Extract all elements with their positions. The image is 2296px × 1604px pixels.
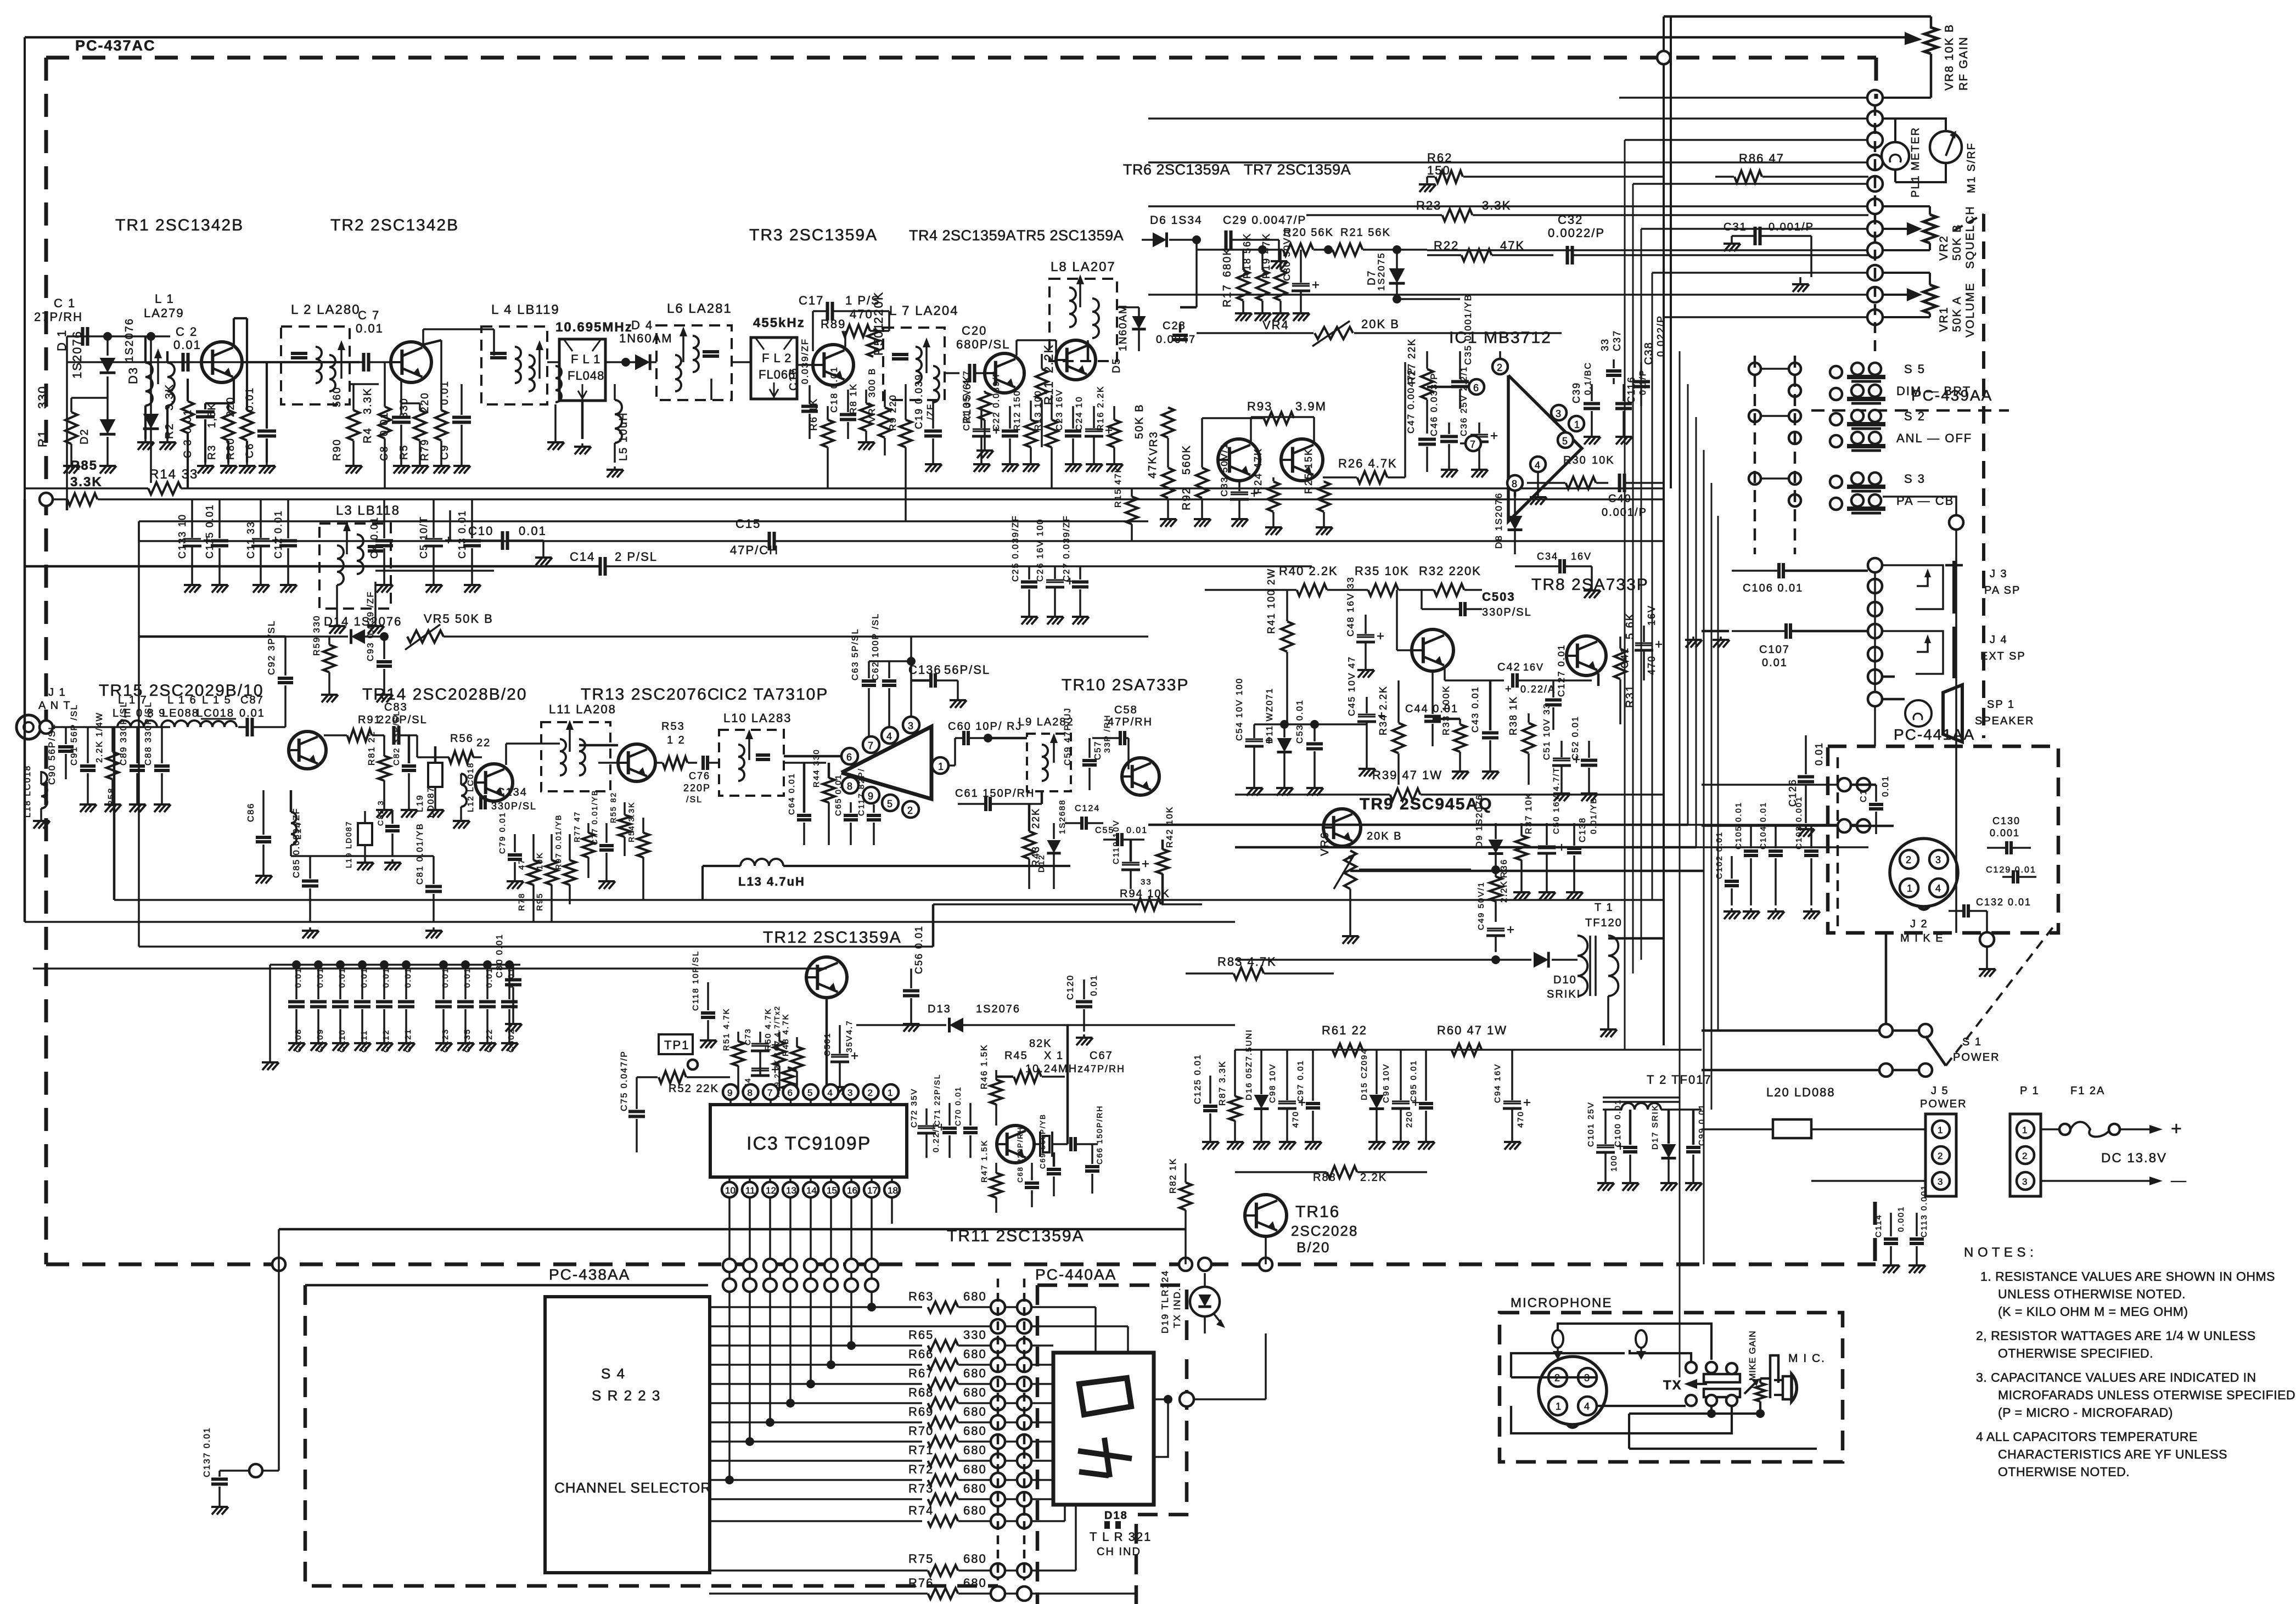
svg-text:2: 2: [907, 805, 913, 816]
pin 1 IC3: [883, 1084, 899, 1100]
svg-text:SPEAKER: SPEAKER: [1975, 715, 2034, 727]
pin circle row2 3: [784, 1279, 797, 1292]
pin circle ladder R 5: [1017, 1396, 1031, 1410]
svg-text:C132 0.01: C132 0.01: [1976, 897, 2031, 908]
svg-text:R70: R70: [908, 1424, 934, 1438]
wire main RF row TR1 stage: [67, 361, 321, 363]
svg-text:R21 56K: R21 56K: [1340, 227, 1391, 239]
capacitor C102 0.01: [1725, 880, 1739, 883]
svg-text:50K B: 50K B: [1133, 404, 1146, 439]
resistor R83 4.7K: [1234, 967, 1264, 980]
svg-text:L5 10uH: L5 10uH: [617, 412, 630, 461]
ground C48: [1365, 667, 1367, 670]
svg-text:27P/RH: 27P/RH: [34, 310, 83, 324]
pin circle row2 5: [824, 1279, 838, 1292]
svg-text:D5: D5: [1111, 358, 1122, 373]
ground C39: [1591, 434, 1593, 437]
ground C22: [1009, 461, 1011, 464]
tuning arrow L7: [925, 343, 928, 373]
svg-text:/SL: /SL: [686, 795, 703, 804]
wire ladder row 3: [710, 1364, 922, 1366]
svg-text:R26 4.7K: R26 4.7K: [1338, 457, 1397, 470]
svg-text:R88: R88: [1313, 1172, 1337, 1184]
svg-text:C98 10V: C98 10V: [1268, 1063, 1277, 1103]
svg-text:3.3K: 3.3K: [70, 475, 103, 489]
svg-text:(K = KILO OHM M = MEG OHM: (K = KILO OHM M = MEG OHM): [1998, 1304, 2188, 1319]
resistor R48 4.7K: [791, 1047, 803, 1072]
svg-text:C43 0.01: C43 0.01: [1470, 686, 1480, 733]
ground D16: [1260, 1139, 1262, 1142]
pin 16 IC3: [844, 1182, 859, 1197]
svg-text:C22 0.039/P: C22 0.039/P: [992, 370, 1001, 431]
potentiometer VR7 300 B: [879, 408, 891, 438]
svg-text:14: 14: [806, 1185, 817, 1196]
transistor TR6: [1218, 439, 1260, 481]
ground C97: [1312, 1139, 1314, 1142]
svg-text:C6: C6: [244, 443, 256, 458]
ground C123: [442, 1040, 445, 1043]
resistor R69 680: [928, 1417, 958, 1428]
capacitor C54 100 10V: [1245, 739, 1263, 740]
svg-text:6: 6: [1473, 382, 1479, 393]
wire column2 vertical: [1874, 572, 1876, 693]
tuning arrow L11: [569, 725, 571, 752]
board outline PC-437AC dashed border: [46, 56, 1876, 60]
transistor TR1: [201, 342, 242, 382]
svg-text:F L 2: F L 2: [762, 351, 791, 365]
pin 1 IC2: [932, 757, 948, 774]
svg-text:C28: C28: [1163, 320, 1186, 332]
diode D5 1N60AM: [1117, 306, 1139, 308]
svg-text:R39 47 1W: R39 47 1W: [1372, 768, 1442, 782]
capacitor C39 0.1/BC: [1584, 402, 1600, 405]
svg-text:R12 150: R12 150: [1013, 390, 1022, 431]
pin circle C137: [249, 1464, 262, 1477]
svg-text:4: 4: [1535, 460, 1540, 471]
svg-text:C85 0.039 /ZF: C85 0.039 /ZF: [292, 808, 301, 878]
capacitor C120 0.01: [1076, 1000, 1092, 1003]
ground C135: [464, 1040, 467, 1043]
wire mic wiring: [1558, 1324, 1711, 1360]
svg-text:VR4: VR4: [1262, 318, 1289, 332]
ground C91: [87, 801, 89, 804]
resistor R1 330: [65, 412, 77, 444]
wire IC3 pin18 drop: [891, 1197, 893, 1224]
ground R5: [419, 463, 421, 466]
svg-text:0.01: 0.01: [182, 409, 194, 434]
ground R59: [328, 691, 330, 695]
tuning arrow L9: [1053, 739, 1055, 763]
svg-text:C116: C116: [1626, 376, 1637, 403]
svg-text:33: 33: [1141, 877, 1152, 887]
svg-text:C90 56P/SL: C90 56P/SL: [47, 723, 57, 785]
capacitor C124 cap: [1080, 817, 1084, 830]
wire bus y1765: [33, 967, 827, 970]
svg-text:680: 680: [963, 1482, 987, 1495]
svg-text:C61 150P/RH: C61 150P/RH: [955, 787, 1035, 800]
svg-text:33: 33: [1599, 338, 1610, 351]
svg-text:R24 47K: R24 47K: [1253, 448, 1264, 494]
ground L1 a: [144, 406, 147, 439]
resistor R62 150: [1435, 171, 1463, 183]
svg-text:330: 330: [398, 397, 410, 418]
pin circle column 8: [1867, 265, 1883, 280]
ground L19b: [364, 859, 366, 863]
wire TR5 base: [1015, 340, 1018, 356]
svg-text:D10: D10: [1553, 974, 1577, 986]
capacitor C123 0.01: [435, 1000, 452, 1003]
svg-text:C76: C76: [689, 770, 710, 781]
svg-text:8: 8: [1512, 479, 1517, 489]
capacitor C111 0.01: [354, 1000, 370, 1003]
pin 8 IC3: [743, 1084, 759, 1100]
svg-text:TR9 2SC945AQ: TR9 2SC945AQ: [1360, 795, 1492, 813]
resistor R80 220: [241, 410, 253, 441]
tuning arrow L6: [682, 332, 684, 362]
ground C4: [383, 582, 385, 585]
capacitor C82b: [385, 825, 400, 828]
ground C56: [910, 1021, 912, 1024]
svg-text:0.01: 0.01: [485, 967, 494, 988]
wire selector drop 5: [830, 1292, 832, 1365]
svg-text:0.001: 0.001: [1990, 828, 2020, 838]
capacitor C44 0.01: [1424, 714, 1441, 718]
transistor TR16 device: [1245, 1195, 1287, 1236]
ground C125: [1209, 1139, 1211, 1142]
svg-text:C62 100P /SL: C62 100P /SL: [871, 613, 880, 680]
svg-text:0.01: 0.01: [1881, 775, 1890, 797]
svg-text:2SC2028: 2SC2028: [1291, 1223, 1358, 1239]
ground C21: [980, 461, 983, 464]
resistor R12 150: [1025, 420, 1037, 447]
svg-text:1: 1: [888, 1088, 892, 1098]
inductor L11 LA208 box: [541, 722, 610, 791]
svg-text:2 P/SL: 2 P/SL: [615, 550, 658, 564]
svg-text:R74: R74: [908, 1504, 934, 1517]
svg-text:R18 56K: R18 56K: [1242, 233, 1253, 279]
svg-text:C100 0.01: C100 0.01: [1613, 1099, 1623, 1147]
svg-text:C33 50V/1: C33 50V/1: [1219, 443, 1230, 497]
ground C89: [136, 801, 138, 804]
ground FL1: [581, 401, 584, 439]
svg-text:2: 2: [2022, 1151, 2027, 1161]
svg-text:7: 7: [868, 740, 873, 751]
wire ladder row 9: [710, 1479, 922, 1481]
pin circle column2 6: [1868, 692, 1882, 706]
ground C502: [508, 1040, 510, 1043]
svg-text:3: 3: [1556, 408, 1561, 419]
pin 17 IC3: [864, 1182, 879, 1197]
capacitor C131 0.01: [1869, 803, 1883, 806]
svg-text:C137 0.01: C137 0.01: [203, 1427, 212, 1477]
pin circle ladder R 9: [1017, 1473, 1031, 1487]
svg-text:TR16: TR16: [1295, 1203, 1340, 1221]
wire vertical feed x3031: [1663, 16, 1665, 1045]
svg-text:0.01: 0.01: [463, 967, 472, 988]
svg-text:S 4: S 4: [601, 1365, 626, 1382]
svg-text:S 5: S 5: [1904, 362, 1926, 376]
capacitor C35 0.001/YB: [1451, 380, 1469, 383]
svg-text:330: 330: [36, 385, 49, 409]
wire right verticals bundle: [1624, 140, 1626, 1050]
svg-text:C86: C86: [246, 803, 256, 822]
svg-text:680: 680: [963, 1443, 987, 1457]
ground R1: [70, 463, 72, 466]
wire TR6/TR7 collectors: [1250, 417, 1252, 442]
ground C113: [1916, 1262, 1918, 1265]
wire mike row2: [1702, 825, 1838, 827]
svg-text:R37 10K: R37 10K: [1524, 792, 1534, 834]
transistor TR8: [1412, 629, 1453, 671]
wire S1 vertical: [1885, 933, 1888, 1024]
capacitor C66 150P/RH: [1085, 1165, 1099, 1168]
wire power row: [1235, 1049, 1702, 1051]
resistor R5 330: [414, 410, 426, 441]
svg-text:C106 0.01: C106 0.01: [1743, 582, 1803, 594]
svg-text:C138: C138: [1578, 817, 1587, 842]
wire L11 to TR13: [579, 744, 618, 747]
svg-text:M I C.: M I C.: [1788, 1352, 1826, 1365]
svg-text:1: 1: [1938, 1125, 1943, 1135]
svg-text:2.2K: 2.2K: [1360, 1172, 1387, 1184]
pin circle ladder R 4: [1017, 1377, 1031, 1391]
resistor R53 12: [663, 757, 688, 769]
svg-text:0.01/YB: 0.01/YB: [1589, 797, 1598, 834]
svg-text:C80 0.01: C80 0.01: [495, 933, 504, 978]
coil L7 primary: [916, 347, 922, 359]
ground mike: [1986, 947, 1988, 966]
wire SP1: [1882, 698, 1905, 701]
resistor R44 330: [823, 778, 835, 803]
coil L6 primary: [675, 355, 681, 367]
ground C112: [383, 1040, 385, 1043]
ground R79: [440, 463, 442, 466]
resistor R77 47 C77: [582, 833, 594, 858]
svg-text:+: +: [1312, 278, 1320, 292]
capacitor C94 470 16V: [1503, 1101, 1521, 1102]
pin 7 IC2: [863, 736, 879, 753]
wire left long vertical: [138, 521, 140, 541]
ground C101: [1604, 1180, 1607, 1183]
diode D17 SRIKI: [1661, 1144, 1676, 1158]
ground C118: [707, 1037, 709, 1040]
svg-text:R79: R79: [419, 438, 431, 461]
svg-text:R53: R53: [661, 721, 685, 733]
ground C116: [1623, 434, 1625, 437]
svg-text:0.01: 0.01: [1762, 657, 1788, 669]
diode D9 1S2076: [1489, 840, 1503, 854]
capacitor C27 0.039/ZF: [1072, 580, 1088, 583]
svg-text:R49 2.2K 16V 4.7/Tx2: R49 2.2K 16V 4.7/Tx2: [773, 1005, 781, 1098]
pin circle row2 0: [723, 1279, 736, 1292]
potentiometer VR6 20K B: [1344, 851, 1356, 889]
svg-text:+: +: [1377, 629, 1384, 644]
svg-text:C48 16V 33: C48 16V 33: [1345, 576, 1356, 637]
ground C43: [1489, 768, 1491, 772]
svg-text:1: 1: [2022, 1125, 2027, 1135]
capacitor C119 33 10V: [1122, 862, 1139, 864]
svg-text:C130: C130: [1992, 815, 2020, 826]
capacitor C90 56P/SL: [58, 745, 74, 748]
svg-text:TR8 2SA733P: TR8 2SA733P: [1531, 576, 1649, 594]
ground C95: [1425, 1139, 1427, 1142]
capacitor C95 0.01: [1419, 1102, 1433, 1105]
ground C110: [339, 1040, 341, 1043]
pin circles on bottom border: [1179, 1258, 1192, 1271]
svg-text:82K: 82K: [1029, 1038, 1052, 1050]
svg-text:R63: R63: [908, 1290, 934, 1303]
ground R17: [1242, 310, 1244, 313]
svg-text:1N60AM: 1N60AM: [1118, 304, 1129, 351]
svg-text:S 3: S 3: [1904, 472, 1926, 486]
resistor R37 10K: [1515, 836, 1528, 860]
pin 6 IC1: [1469, 379, 1484, 395]
svg-text:0.001: 0.001: [1896, 1206, 1906, 1232]
wire TR8 emitter to C42: [1444, 668, 1446, 680]
pin circle row2 6: [845, 1279, 858, 1292]
wire bus y1640: [114, 899, 1663, 901]
ground C36: [1478, 466, 1480, 470]
wire long row 950: [139, 520, 1148, 522]
svg-text:D 1: D 1: [55, 329, 69, 351]
dashed PC-439AA right border: [1982, 214, 1985, 738]
pin circle ladder L 4: [991, 1377, 1005, 1391]
display glyph 0: [1079, 1378, 1131, 1415]
svg-text:220: 220: [1405, 1111, 1414, 1128]
capacitor C89 330P/SL: [130, 764, 145, 768]
capacitor C129 0.01: [2012, 870, 2015, 883]
svg-text:455kHz: 455kHz: [753, 316, 805, 330]
svg-text:S 1: S 1: [1962, 1036, 1982, 1048]
svg-text:R89: R89: [821, 317, 846, 331]
pin circle row2 2: [764, 1279, 777, 1292]
pin circle column2 1: [1868, 579, 1882, 593]
wire ladder row 10: [710, 1498, 922, 1500]
wire meter loop: [1882, 119, 1946, 131]
svg-text:C117 82P/: C117 82P/: [857, 768, 866, 816]
ground C106/C107: [1702, 630, 1729, 633]
pin 2 IC2: [902, 801, 919, 818]
resistor R501 220K: [867, 329, 879, 357]
ground C53: [1313, 785, 1316, 788]
ground C109: [317, 1040, 319, 1043]
svg-text:R31: R31: [1624, 684, 1636, 708]
wire selector drop 4: [810, 1292, 812, 1384]
capacitor C42 0.22/A 16V: [1511, 673, 1514, 688]
capacitor C28 0.0047: [1172, 334, 1188, 337]
svg-text:C36 25V 2.2/1: C36 25V 2.2/1: [1459, 366, 1469, 436]
svg-text:0.0047: 0.0047: [1156, 334, 1196, 346]
svg-text:L 7 LA204: L 7 LA204: [889, 303, 959, 318]
ground C77: [605, 878, 608, 881]
capacitor C117 82P: [867, 814, 881, 817]
ground C82b: [391, 859, 394, 863]
resistor R27 22K: [1421, 369, 1433, 399]
dashed border right bottom: [1873, 1202, 1877, 1264]
resistor R76 680: [928, 1588, 958, 1599]
svg-text:C69 560P/YB: C69 560P/YB: [1038, 1113, 1047, 1169]
svg-text:0.22/A: 0.22/A: [1520, 684, 1556, 695]
svg-text:LE088: LE088: [162, 707, 199, 719]
svg-text:0.01: 0.01: [356, 322, 384, 335]
svg-text:1: 1: [1907, 883, 1912, 894]
dashed mike connector left border: [1837, 757, 1839, 933]
svg-text:C19 0.039: C19 0.039: [913, 374, 924, 429]
pin 4 IC2: [882, 727, 898, 744]
svg-text:C56 0.01: C56 0.01: [913, 925, 924, 974]
wire bus into column y537: [1148, 294, 1868, 296]
svg-text:1N60AM: 1N60AM: [619, 331, 673, 345]
diode D10 SRIKI: [1534, 952, 1548, 968]
pin circle column 2: [1867, 132, 1883, 148]
resistor R6 1K: [822, 420, 834, 447]
svg-text:0.1/P: 0.1/P: [1638, 369, 1648, 395]
resistor R49 2.2K: [782, 1067, 794, 1089]
resistor R47 1.5K: [990, 1173, 1002, 1198]
inductor L3 LB118 box: [319, 524, 391, 609]
switch S4 SR223 channel selector: [545, 1297, 710, 1573]
capacitor C38 0.022/P: [1632, 380, 1650, 383]
svg-text:TR7 2SC1359A: TR7 2SC1359A: [1244, 161, 1351, 178]
capacitor C138 0.01/YB: [1567, 847, 1581, 850]
wire mic switch bottom: [1710, 1406, 1713, 1414]
svg-text:TR3 2SC1359A: TR3 2SC1359A: [749, 226, 878, 244]
svg-text:VR6: VR6: [1319, 831, 1331, 856]
coil L4 primary: [515, 347, 521, 359]
svg-text:TR4 2SC1359A: TR4 2SC1359A: [909, 227, 1016, 244]
transistor TR3: [813, 345, 854, 385]
capacitor C12 0.01: [279, 539, 297, 542]
svg-text:C 1: C 1: [54, 296, 76, 310]
ground C120: [1083, 1034, 1085, 1038]
wire D10 row: [1235, 959, 1531, 961]
op-amp IC2 TA7310P triangle: [841, 727, 931, 799]
zener D11 WZ071: [1277, 738, 1292, 752]
pin circle ladder R 10: [1017, 1492, 1031, 1506]
wire row 1560: [291, 855, 434, 857]
svg-text:C97 0.01: C97 0.01: [1296, 1060, 1305, 1102]
capacitor C76 220P/SL: [701, 756, 705, 770]
svg-text:C15: C15: [736, 517, 761, 531]
svg-text:1S2075: 1S2075: [1376, 252, 1386, 291]
transistor TR10 device: [1122, 758, 1159, 795]
svg-text:R45: R45: [1004, 1050, 1028, 1062]
svg-text:0.22/T: 0.22/T: [931, 1122, 941, 1152]
svg-text:PC-437AC: PC-437AC: [75, 37, 156, 54]
svg-text:16V: 16V: [1523, 662, 1544, 673]
meter M1 S/RF: [1930, 131, 1962, 163]
ground C104: [1775, 908, 1777, 911]
pin 14 IC3: [803, 1182, 818, 1197]
svg-text:3.3K: 3.3K: [164, 384, 176, 410]
capacitor C4 0.01: [375, 539, 393, 542]
dashed PC-438AA border: [305, 1285, 998, 1586]
wire bus into column y497: [1652, 272, 1868, 274]
jack J3 PA SP: [1882, 565, 1943, 609]
capacitor C118 10P/SL: [701, 1011, 715, 1015]
potentiometer VR5 50K B: [407, 631, 444, 643]
pin circle column 1: [1867, 111, 1883, 126]
wire selector drop 1: [749, 1292, 751, 1442]
svg-text:C46 0.033/P: C46 0.033/P: [1429, 372, 1439, 436]
svg-text:10K: 10K: [1592, 454, 1615, 466]
svg-text:680: 680: [963, 1290, 987, 1303]
wire IC3 pin 17 drop: [871, 1197, 873, 1285]
coil L4 out: [555, 366, 562, 378]
wire bus y1725: [139, 945, 933, 948]
wire FL1 out: [605, 361, 634, 363]
ground C12: [287, 582, 289, 585]
